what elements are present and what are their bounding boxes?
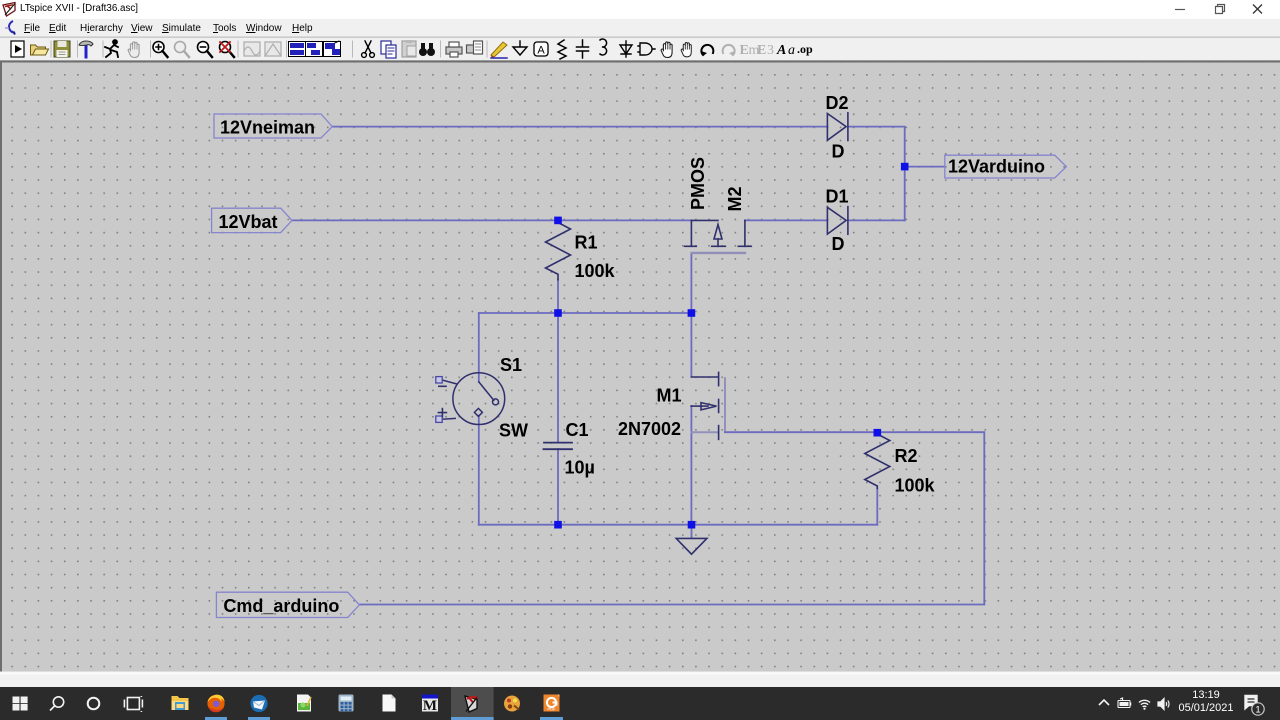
resistor R1 [546, 223, 571, 280]
cascade [324, 41, 341, 57]
svg-text:12Varduino: 12Varduino [948, 157, 1045, 177]
G app [544, 695, 560, 712]
inductor icon [600, 39, 607, 55]
wire R1 bottom to node [557, 280, 559, 313]
wire S1 top [478, 313, 480, 382]
svg-text:R2: R2 [895, 446, 918, 466]
Em (disabled) [740, 43, 760, 58]
flag Cmd_arduino [216, 592, 359, 617]
run man [105, 40, 118, 57]
wire C1 bottom [557, 449, 559, 525]
svg-text:M2: M2 [725, 186, 745, 211]
svg-text:C1: C1 [566, 420, 589, 440]
wifi [1139, 700, 1150, 709]
svg-text:S1: S1 [500, 355, 522, 375]
wire D1 cathode to corner [848, 219, 905, 221]
wire 12Vneiman to D2 anode [332, 126, 827, 128]
svg-text:D2: D2 [826, 93, 849, 113]
svg-text:10µ: 10µ [565, 458, 595, 478]
svg-text:3: 3 [767, 43, 774, 58]
M app [422, 695, 438, 715]
thunderbird [250, 695, 267, 712]
status bar [0, 672, 1280, 688]
calculator [339, 695, 354, 712]
tray chevron [1099, 700, 1109, 705]
active app highlight [451, 687, 494, 720]
node junction ground rail [688, 521, 696, 529]
explorer folder [172, 696, 189, 710]
pmos M2 [685, 220, 752, 246]
restore [1216, 5, 1225, 14]
zoom out [198, 42, 213, 58]
wire ground rail [479, 524, 878, 526]
switch S1 body [442, 373, 505, 425]
close [1253, 5, 1262, 14]
save [54, 41, 70, 57]
window chrome [0, 0, 1280, 19]
svg-text:PDF: PDF [548, 707, 557, 712]
wire to R2 top and right riser [725, 432, 984, 604]
svg-text:100k: 100k [895, 476, 936, 496]
battery [1118, 698, 1131, 708]
undo zoom [220, 42, 235, 58]
wire S1 bottom [478, 416, 480, 525]
separators [51, 41, 487, 57]
switch S1 polarity marks [438, 386, 446, 416]
svg-text:a: a [788, 43, 795, 58]
wire M2 gate down to node [690, 253, 692, 313]
green doc app [297, 695, 311, 712]
svg-text:A: A [537, 45, 545, 57]
node junction at 12Vbat/R1 [554, 217, 562, 225]
component icon [638, 43, 655, 55]
svg-text:2N7002: 2N7002 [618, 419, 681, 439]
tile vertical [306, 42, 323, 57]
cut [362, 41, 375, 57]
diode D1 [827, 207, 848, 235]
paste (disabled) [402, 40, 416, 57]
svg-text:M: M [423, 698, 437, 714]
wire C1 top [557, 313, 559, 442]
ltspice [465, 696, 478, 712]
writer doc [383, 695, 396, 712]
redo (disabled) [723, 45, 735, 56]
svg-text:.op: .op [797, 42, 813, 56]
capacitor icon [577, 40, 589, 58]
tile horizontal [289, 42, 306, 57]
pmos M2 gate bar [692, 252, 745, 254]
ground [676, 538, 707, 554]
diode D2 [827, 113, 848, 141]
node junction R2 top [874, 429, 882, 437]
undo [701, 45, 713, 56]
wire pencil [491, 42, 507, 58]
svg-text:D1: D1 [826, 187, 849, 207]
svg-text:Cmd_arduino: Cmd_arduino [223, 596, 339, 616]
svg-text:100k: 100k [575, 261, 616, 281]
node junction R1 bottom row right [688, 309, 696, 317]
.op [797, 42, 813, 56]
svg-text:D: D [832, 234, 845, 254]
running indicator underlines [205, 717, 563, 720]
svg-text:12Vneiman: 12Vneiman [220, 118, 315, 138]
capacitor C1 [544, 443, 573, 450]
find binoculars [419, 43, 435, 56]
waveform pane (disabled) [244, 42, 260, 56]
diode icon [620, 41, 632, 57]
wire M1 gate column down to rail [690, 406, 692, 525]
task view [124, 696, 142, 712]
svg-text:12Vbat: 12Vbat [219, 212, 278, 232]
waveform pane 2 (disabled) [265, 42, 281, 56]
open [31, 45, 49, 55]
Aa text [776, 43, 795, 58]
wire ground stub [691, 529, 693, 538]
svg-text:E: E [757, 43, 766, 58]
ground symbol icon [513, 41, 527, 55]
minimize [1175, 9, 1185, 11]
svg-text:SW: SW [499, 421, 528, 441]
print [446, 42, 462, 57]
print preview [467, 41, 483, 54]
svg-text:1: 1 [1255, 705, 1260, 716]
node junction at diode output [901, 163, 909, 171]
flag 12Varduino [945, 155, 1067, 178]
notifications [1245, 696, 1264, 716]
firefox [207, 695, 224, 713]
svg-text:PMOS: PMOS [688, 157, 708, 210]
wire node row to S1 branch [479, 312, 692, 314]
svg-text:R1: R1 [575, 233, 598, 253]
flag 12Vneiman [214, 114, 332, 138]
wire M2 drain to D1 anode [745, 219, 828, 221]
start [13, 697, 28, 711]
nmos M1 [691, 372, 719, 439]
control panel hammer [79, 41, 93, 57]
cortana [88, 698, 100, 710]
svg-text:A: A [776, 43, 786, 58]
resistor icon [558, 40, 566, 59]
wire D2 cathode to corner and down to node [848, 127, 905, 221]
search [50, 697, 64, 711]
wire M1 drain from node [690, 313, 692, 377]
resistor R2 [865, 434, 890, 488]
zoom in [153, 42, 168, 58]
svg-text:E: E [740, 43, 749, 58]
svg-text:M1: M1 [657, 386, 682, 406]
flag 12Vbat [212, 208, 292, 232]
switch S1 terminal pads [436, 377, 442, 423]
wire M1 source lead row [691, 431, 718, 433]
palette app [504, 696, 520, 712]
speaker [1158, 699, 1169, 710]
wire node to 12Varduino flag [905, 166, 945, 168]
wire M1 bulk to R2 line [724, 378, 726, 431]
halt hand (disabled) [128, 42, 139, 58]
drag hand [681, 43, 691, 57]
label icon [534, 42, 548, 57]
E3 (disabled) [757, 43, 774, 58]
zoom extents [175, 42, 190, 58]
svg-text:D: D [832, 142, 845, 162]
copy [381, 41, 396, 58]
wire Cmd_arduino run [359, 604, 984, 606]
node junction R1 bottom row left [554, 309, 562, 317]
node junction C1 bottom [554, 521, 562, 529]
move hand [661, 42, 672, 58]
wire R2 bottom to rail [876, 488, 878, 524]
wire 12Vbat to M2 source [292, 219, 691, 221]
new schematic [11, 41, 24, 57]
